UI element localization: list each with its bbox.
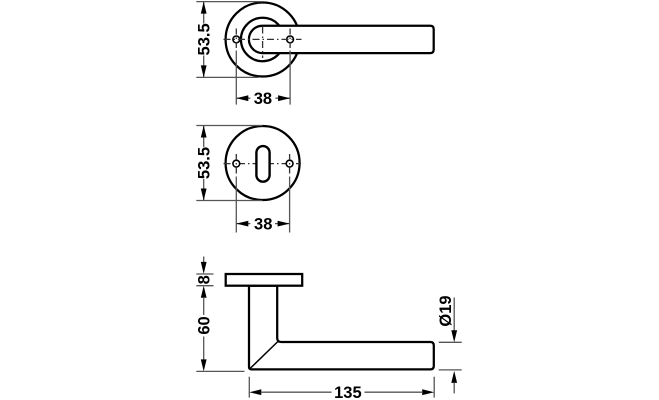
dimension 53.5 (escutcheon) arrow down xyxy=(201,189,207,201)
dimension 135 arrow right xyxy=(422,389,434,395)
dimension 53.5 (top view) extension bottom xyxy=(196,76,258,78)
dimension 135 extension left xyxy=(248,377,250,398)
dimension 53.5 (escutcheon) line lower xyxy=(203,179,205,201)
dimension 135 line left xyxy=(261,391,332,393)
dimension 53.5 (escutcheon) extension top xyxy=(196,125,262,127)
dimension D19 line above xyxy=(453,298,455,332)
dimension 38 (escutcheon) arrow right xyxy=(278,221,290,227)
dimension D19 arrow up below xyxy=(451,371,457,383)
dimension 60 arrow up xyxy=(201,286,207,298)
svg-text:38: 38 xyxy=(254,90,272,108)
dimension 53.5 (top view) extension top xyxy=(196,1,263,3)
dimension 38 (top view) line left xyxy=(236,97,250,99)
dimension 38 (escutcheon) line left xyxy=(236,223,250,225)
screw hole left (escutcheon) xyxy=(233,160,240,167)
dimension 60 line upper xyxy=(203,297,205,315)
dimension 53.5 (escutcheon) line upper xyxy=(203,126,205,148)
svg-text:8: 8 xyxy=(196,275,214,284)
dimension 53.5 (top view) arrow down xyxy=(201,65,207,77)
keyhole slot xyxy=(256,146,269,182)
dimension D19 extension top xyxy=(439,341,462,343)
screw hole right (escutcheon) xyxy=(286,160,293,167)
dimension 60 line lower xyxy=(203,337,205,361)
dimension 38 (top view) arrow right xyxy=(278,95,290,101)
vertical centerline right hole (top view) xyxy=(289,29,291,51)
vertical centerline left hole (top view) xyxy=(235,29,237,51)
dimension 53.5 (escutcheon) arrow up xyxy=(201,126,207,138)
dimension 38 (top view) line right xyxy=(275,97,290,99)
dimension 53.5 (escutcheon) extension bottom xyxy=(196,200,262,202)
screw hole right (top view) xyxy=(287,36,294,43)
dimension 38 (escutcheon) arrow left xyxy=(236,221,248,227)
extension line right hole down (escutcheon) xyxy=(289,177,291,233)
svg-text:60: 60 xyxy=(196,316,214,334)
extension line left hole down (top view) xyxy=(235,51,237,105)
screw hole left (top view) xyxy=(233,36,240,43)
rose outer circle (top view) xyxy=(226,3,300,77)
handle side profile (neck + lever) xyxy=(249,286,434,370)
dimension D19 extension bottom xyxy=(439,369,462,371)
dimension 8 tail above xyxy=(203,257,205,263)
rose inner circle (top view) xyxy=(241,18,284,61)
dimension 8 extension top xyxy=(196,273,213,275)
dimension 8 arrow down xyxy=(201,262,207,274)
dimension 53.5 (top view) line upper xyxy=(203,2,205,24)
dimension 135 arrow left xyxy=(249,389,261,395)
dimension 60 extension bottom xyxy=(196,370,244,372)
vertical centerline right hole (escutcheon) xyxy=(289,154,291,174)
lever grip (front view, rounded left cap) xyxy=(249,26,434,53)
svg-text:Ø19: Ø19 xyxy=(437,295,455,326)
dimension 8 extension bottom xyxy=(196,285,213,287)
dimension D19 tail below xyxy=(453,382,455,393)
svg-text:38: 38 xyxy=(254,216,272,234)
horizontal centerline (escutcheon) xyxy=(224,163,302,165)
dimension 135 extension right xyxy=(433,377,435,398)
dimension D19 arrow down xyxy=(451,330,457,342)
vertical centerline centre (top view) xyxy=(262,27,264,59)
dimension 53.5 (top view) line lower xyxy=(203,56,205,78)
dimension 38 (top view) arrow left xyxy=(236,95,248,101)
svg-text:53.5: 53.5 xyxy=(196,147,214,179)
extension line left hole down (escutcheon) xyxy=(235,177,237,233)
extension line right hole down (top view) xyxy=(289,51,291,105)
dimension 135 line right xyxy=(365,391,423,393)
dimension 60 arrow down xyxy=(201,359,207,371)
horizontal centerline (top view) xyxy=(224,38,302,40)
svg-text:135: 135 xyxy=(334,384,362,400)
escutcheon outer circle xyxy=(226,126,300,200)
rose plate (side view) xyxy=(226,274,303,286)
dimension 53.5 (top view) arrow up xyxy=(201,2,207,14)
dimension 38 (escutcheon) line right xyxy=(275,223,290,225)
vertical centerline left hole (escutcheon) xyxy=(235,154,237,174)
svg-text:53.5: 53.5 xyxy=(196,23,214,55)
miter line at elbow (side view) xyxy=(250,341,278,369)
